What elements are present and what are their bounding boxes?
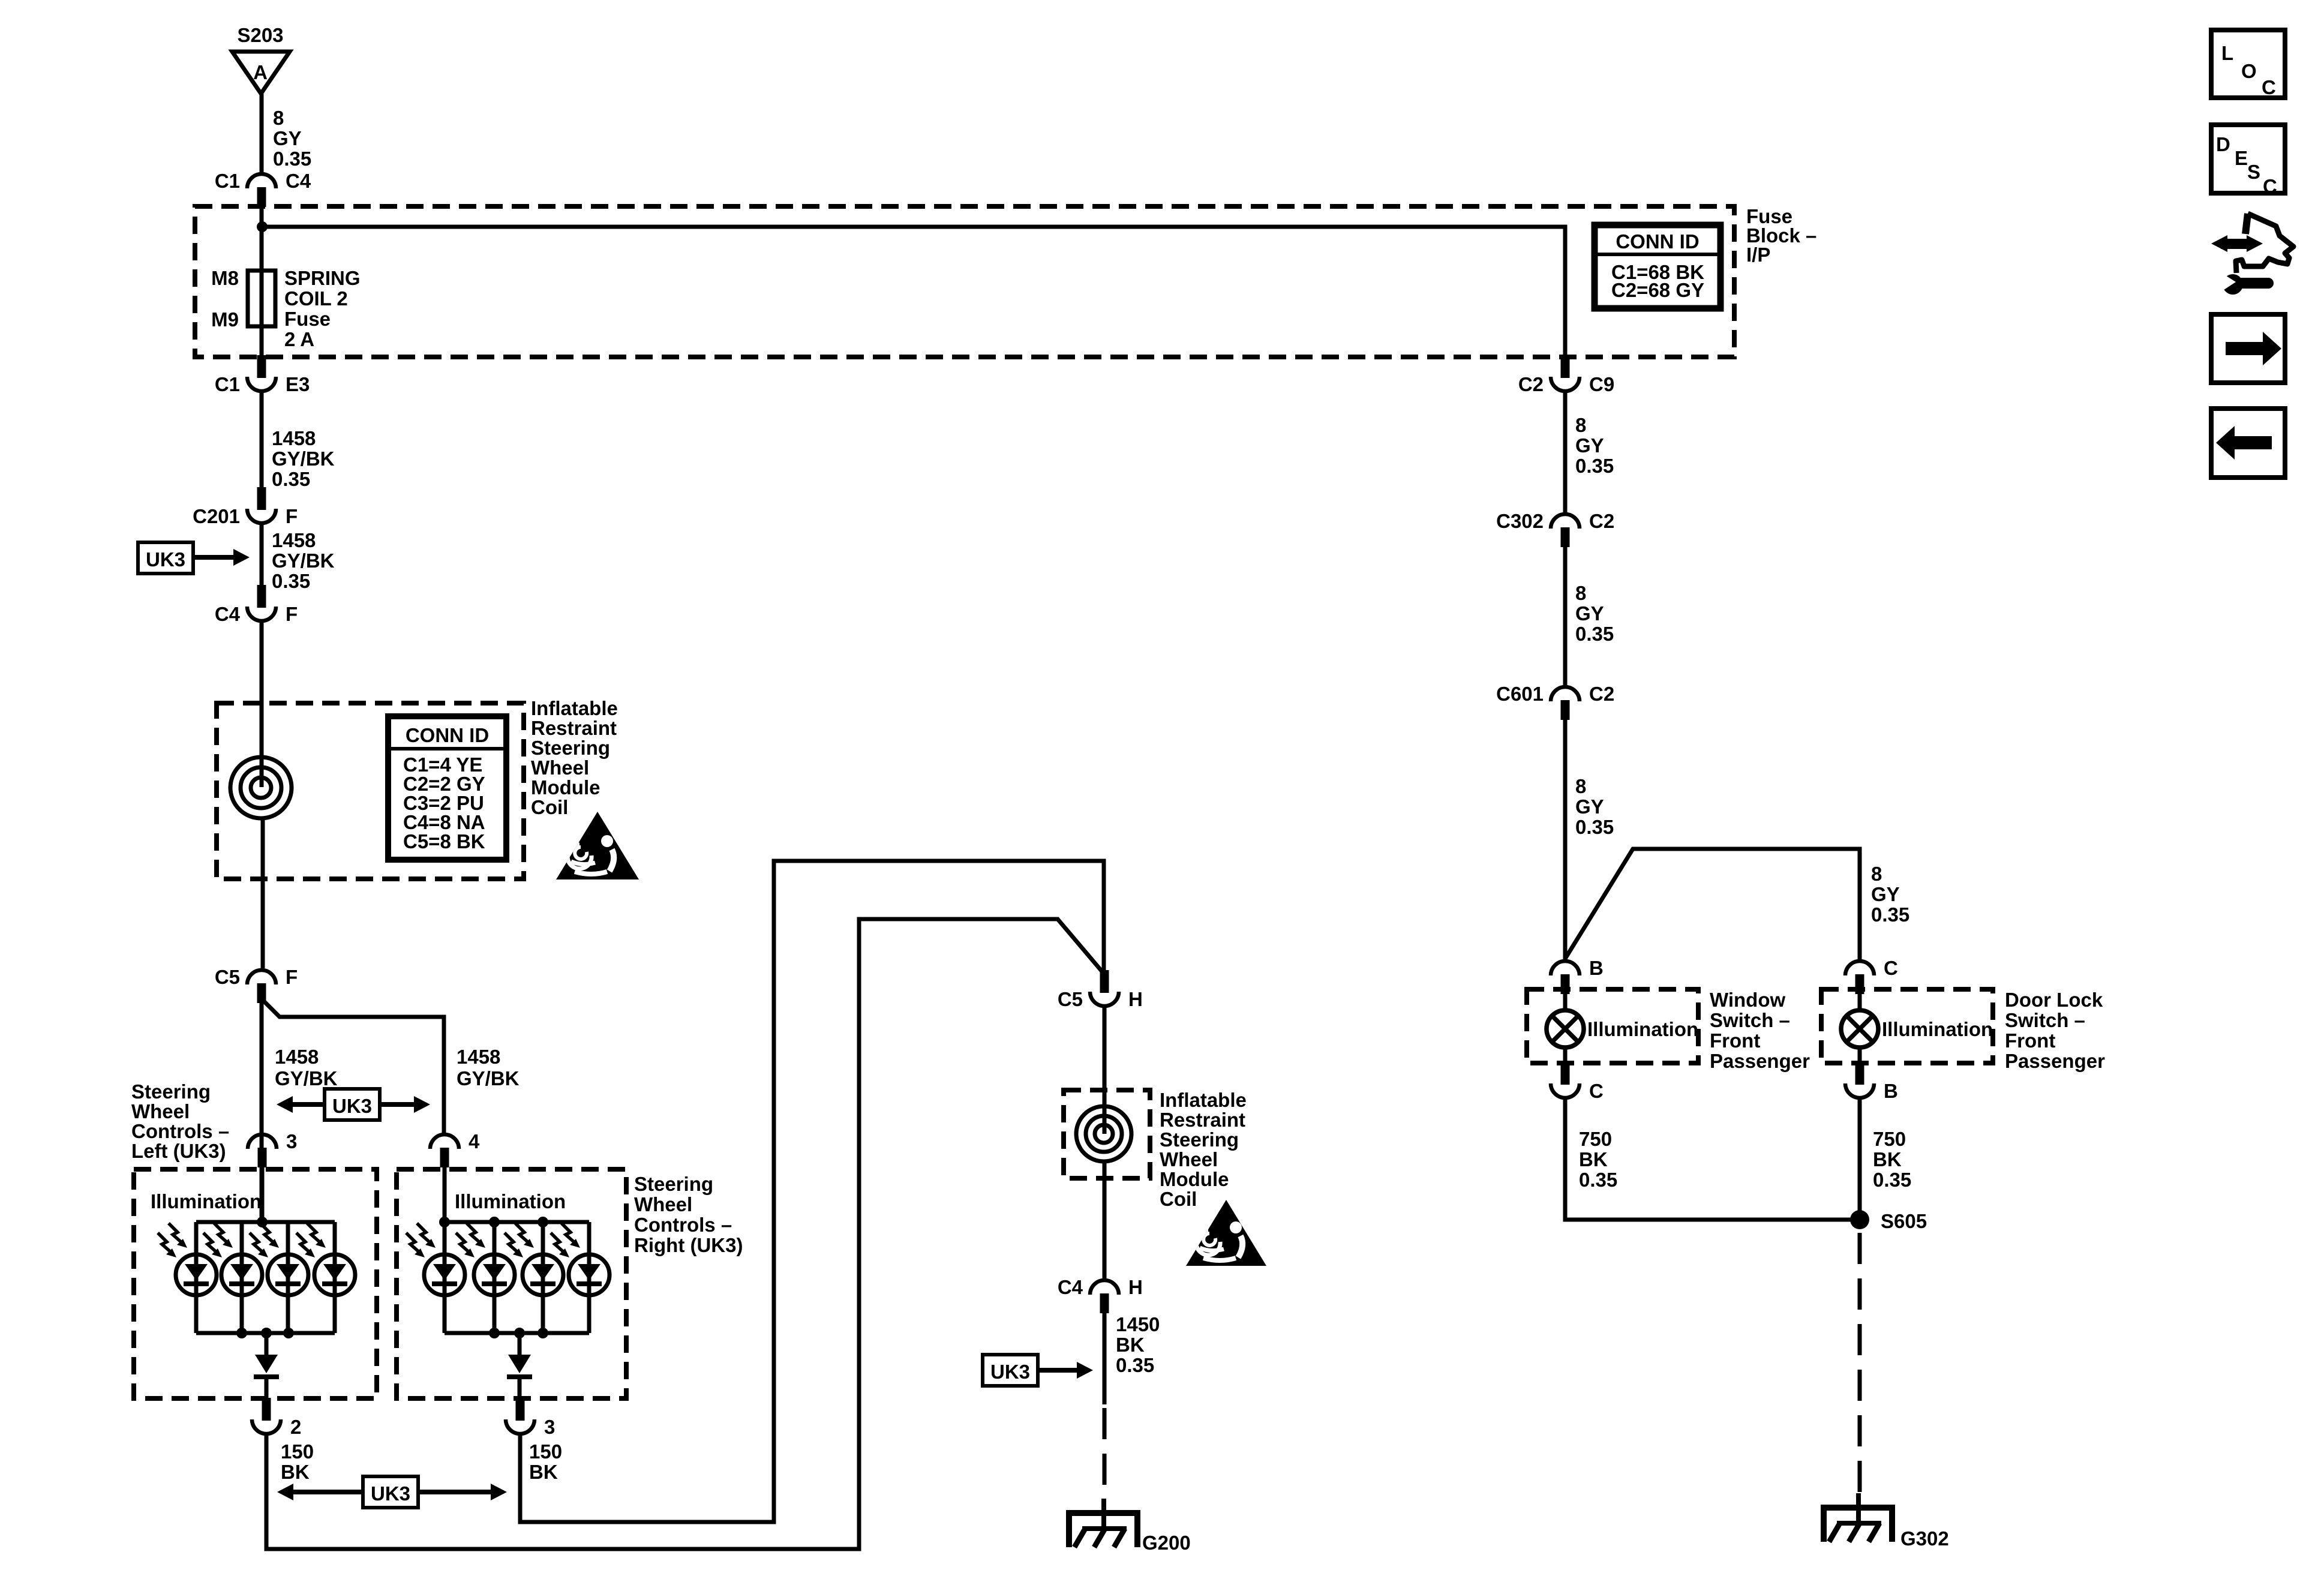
fuse block I/P dashed outline (195, 206, 1734, 357)
svg-text:UK3: UK3 (990, 1361, 1030, 1383)
wire left bus to diode (265, 1333, 269, 1355)
wire C4/H to G200 (1103, 1313, 1107, 1404)
connector C (window switch bottom) (1551, 1062, 1604, 1102)
LED lamp 4 (SWC right) (569, 1254, 609, 1295)
right LED branch 3 (541, 1222, 545, 1333)
svg-text:M9: M9 (211, 308, 239, 331)
svg-text:BK: BK (1116, 1334, 1145, 1356)
svg-text:F: F (286, 505, 298, 527)
LED lamp 1 (SWC right) (424, 1254, 465, 1295)
svg-text:2 A: 2 A (284, 328, 314, 350)
wire label 1458 GY/BK (right) (457, 1046, 520, 1089)
svg-text:S203: S203 (237, 24, 283, 46)
svg-text:0.35: 0.35 (1579, 1169, 1617, 1191)
svg-text:4: 4 (469, 1130, 480, 1152)
svg-text:GY: GY (1871, 883, 1900, 905)
svg-text:C302: C302 (1496, 510, 1544, 532)
junction on left LED bus (257, 1217, 268, 1227)
svg-text:Fuse: Fuse (284, 308, 331, 330)
component label Window Switch - Front Passenger (1710, 989, 1810, 1072)
wire C5/H to coil (1103, 1008, 1107, 1134)
LED lamp 3 (SWC right) (523, 1254, 563, 1295)
svg-text:Wheel: Wheel (634, 1193, 692, 1215)
junction right bottom bus A (489, 1328, 500, 1338)
wire window switch C to S605 (1565, 1100, 1860, 1220)
svg-text:GY/BK: GY/BK (272, 448, 335, 470)
wire diode to pin 2 (265, 1378, 269, 1398)
wire label 8 GY 0.35 (circuit 8) (273, 107, 311, 170)
fuse value label SPRING COIL 2 Fuse 2 A (284, 267, 361, 350)
steering wheel controls right dashed outline (397, 1169, 626, 1398)
right LED bottom bus (445, 1331, 589, 1335)
svg-text:Passenger: Passenger (2005, 1050, 2105, 1072)
svg-text:C201: C201 (193, 505, 240, 527)
SIR warning triangle (left) (556, 812, 639, 879)
svg-text:Switch –: Switch – (1710, 1009, 1790, 1031)
svg-text:UK3: UK3 (371, 1482, 410, 1505)
svg-text:C2: C2 (1589, 510, 1614, 532)
wire label 3 150 BK (right) (529, 1440, 562, 1483)
sidebar LOC box (2211, 30, 2285, 98)
LED emission arrows 4 (left) (296, 1223, 326, 1257)
LED emission arrows 1 (left) (158, 1223, 187, 1257)
door lock switch illumination dashed outline (1821, 989, 1993, 1063)
branch wire to door lock switch C (1565, 849, 1860, 959)
svg-text:H: H (1128, 988, 1143, 1010)
svg-text:C1: C1 (215, 373, 240, 395)
svg-text:C4: C4 (286, 170, 311, 192)
svg-text:0.35: 0.35 (272, 468, 310, 490)
svg-text:GY/BK: GY/BK (457, 1067, 520, 1089)
wire label 8 GY 0.35 (door lock feed) (1871, 863, 1909, 926)
LED emission arrows 2 (right) (456, 1223, 485, 1257)
wire C4/F into coil module (260, 623, 264, 787)
inflatable restraint SWM coil dashed outline (right) (1064, 1090, 1150, 1178)
svg-text:C5: C5 (1058, 988, 1083, 1010)
svg-text:0.35: 0.35 (1871, 903, 1909, 926)
svg-text:8: 8 (1575, 775, 1586, 797)
wire label 8 GY 0.35 (below C601) (1575, 775, 1614, 838)
junction left bus A (236, 1328, 247, 1338)
LED lamp 4 (SWC left) (314, 1254, 355, 1295)
wire diode to pin 3 (518, 1378, 522, 1398)
svg-text:Illumination: Illumination (1882, 1018, 1993, 1040)
svg-text:BK: BK (529, 1461, 558, 1483)
svg-text:0.35: 0.35 (1116, 1354, 1154, 1376)
wire door lock B to S605 (1858, 1100, 1862, 1220)
svg-text:8: 8 (1575, 414, 1586, 436)
label Illumination (window switch) (1587, 1018, 1698, 1040)
sidebar prev-page arrow box (2211, 409, 2285, 478)
svg-text:C: C (2262, 76, 2276, 98)
svg-text:1450: 1450 (1116, 1313, 1160, 1335)
svg-text:Restraint: Restraint (531, 717, 617, 739)
LED emission arrows 3 (right) (505, 1223, 534, 1257)
svg-text:F: F (286, 603, 298, 625)
svg-text:1458: 1458 (272, 427, 316, 449)
splice S605 (1850, 1210, 1869, 1229)
svg-text:C: C (2263, 175, 2277, 197)
svg-text:Steering: Steering (131, 1080, 211, 1103)
svg-text:E3: E3 (286, 373, 310, 395)
svg-text:1458: 1458 (275, 1046, 319, 1068)
wire pin3 to LED bus (260, 1167, 265, 1222)
svg-text:UK3: UK3 (146, 548, 185, 571)
junction left bus C (283, 1328, 294, 1338)
svg-text:Passenger: Passenger (1710, 1050, 1810, 1072)
right LED branch 4 (587, 1222, 591, 1333)
left LED branch 4 (333, 1222, 337, 1333)
dashed wire to G200 (1103, 1408, 1107, 1498)
svg-text:Front: Front (1710, 1029, 1760, 1052)
wire C1/C4 through fuse block to C1/E3 (260, 207, 264, 355)
svg-text:2: 2 (290, 1416, 301, 1438)
svg-text:H: H (1128, 1276, 1143, 1298)
connector C (door lock switch) (1845, 957, 1898, 994)
svg-text:I/P: I/P (1746, 244, 1770, 266)
svg-text:0.35: 0.35 (1575, 816, 1614, 838)
svg-text:L: L (2221, 42, 2233, 64)
svg-text:Wheel: Wheel (131, 1100, 190, 1122)
wire coil to C5/F (261, 818, 265, 968)
wire C302 to C601 (1563, 547, 1568, 685)
svg-text:Steering: Steering (1160, 1128, 1239, 1151)
svg-text:3: 3 (286, 1130, 297, 1152)
left LED bottom bus (196, 1331, 335, 1335)
junction left bus B (261, 1328, 272, 1338)
LED emission arrows 3 (left) (250, 1223, 279, 1257)
junction right top bus B (489, 1217, 500, 1227)
svg-text:Right (UK3): Right (UK3) (634, 1234, 743, 1256)
svg-text:Coil: Coil (1160, 1188, 1197, 1210)
LED lamp 1 (SWC left) (176, 1254, 217, 1295)
svg-text:C5=8 BK: C5=8 BK (403, 830, 485, 852)
svg-text:Steering: Steering (634, 1173, 713, 1195)
svg-text:Module: Module (1160, 1168, 1229, 1190)
diode (SWC left) (254, 1355, 279, 1379)
component label Steering Wheel Controls - Right (UK3) (634, 1173, 743, 1256)
connector C302 / C2 (1496, 510, 1614, 547)
svg-text:0.35: 0.35 (1575, 623, 1614, 645)
left LED branch 1 (194, 1222, 199, 1333)
svg-text:E: E (2235, 147, 2248, 169)
svg-text:A: A (253, 61, 268, 83)
svg-text:F: F (286, 966, 298, 988)
svg-text:150: 150 (281, 1440, 314, 1463)
left LED branch 3 (286, 1222, 290, 1333)
fuse terminal label M9 (211, 308, 239, 331)
left LED top bus (196, 1220, 335, 1224)
ground G200 (1069, 1499, 1191, 1554)
label Illumination (door lock) (1882, 1018, 1993, 1040)
svg-text:Switch –: Switch – (2005, 1009, 2085, 1031)
LED lamp 2 (SWC right) (474, 1254, 515, 1295)
svg-text:GY: GY (1575, 795, 1604, 818)
right LED branch 1 (443, 1222, 447, 1333)
svg-text:C601: C601 (1496, 683, 1544, 705)
svg-text:0.35: 0.35 (273, 148, 311, 170)
junction right top bus A (439, 1217, 450, 1227)
svg-text:COIL 2: COIL 2 (284, 287, 348, 310)
CONN ID table (SWM coil) (388, 716, 506, 860)
svg-text:UK3: UK3 (332, 1095, 372, 1117)
svg-text:C9: C9 (1589, 373, 1614, 395)
svg-text:GY: GY (273, 127, 302, 149)
clockspring coil symbol (right) (1076, 1106, 1131, 1161)
svg-text:GY: GY (1575, 434, 1604, 457)
wire coil to C4/H (1103, 1161, 1107, 1278)
svg-text:C2: C2 (1518, 373, 1544, 395)
svg-text:750: 750 (1873, 1128, 1906, 1150)
wire label 8 GY 0.35 (below C9) (1575, 414, 1614, 477)
connector pin 3 (SWC left) (248, 1130, 297, 1167)
sidebar harness routing icon (2211, 214, 2293, 295)
splice S203 triangle (232, 52, 290, 94)
connector C4 / F (215, 585, 298, 625)
junction node in fuse block (257, 221, 268, 232)
svg-text:C4: C4 (215, 603, 241, 625)
svg-text:CONN ID: CONN ID (1616, 230, 1699, 253)
svg-text:150: 150 (529, 1440, 562, 1463)
wire B to lamp (1563, 993, 1568, 1010)
svg-text:SPRING: SPRING (284, 267, 361, 289)
UK3 option double arrow (bottom) (277, 1476, 507, 1508)
illumination lamp (window switch) (1547, 1010, 1584, 1047)
connector C601 / C2 (1496, 683, 1614, 720)
UK3 option arrow box (left upper) (138, 542, 250, 574)
wire C2/C9 to C302 (1563, 393, 1568, 512)
left LED branch 2 (240, 1222, 244, 1333)
connector B (door lock switch bottom) (1845, 1062, 1898, 1102)
component label Door Lock Switch - Front Passenger (2005, 989, 2105, 1072)
wire label 750 BK 0.35 (right) (1873, 1128, 1911, 1191)
wire label 8 GY 0.35 (below C302) (1575, 582, 1614, 645)
svg-text:8: 8 (273, 107, 284, 129)
wire label 1450 BK 0.35 (1116, 1313, 1160, 1376)
svg-text:3: 3 (544, 1416, 555, 1438)
wire label 1458 GY/BK 0.35 (below C201) (272, 529, 335, 592)
junction right bottom bus B (514, 1328, 525, 1338)
svg-text:BK: BK (281, 1461, 310, 1483)
LED lamp 3 (SWC left) (268, 1254, 308, 1295)
connector C5 / F (215, 966, 298, 1003)
svg-text:C1: C1 (215, 170, 240, 192)
connector pin 3 (SWC right bottom) (506, 1398, 555, 1438)
inflatable restraint steering wheel module coil dashed outline (217, 703, 524, 879)
wire label 2 150 BK (left) (281, 1440, 314, 1483)
svg-text:Coil: Coil (531, 796, 568, 818)
wire from S203 to C1/C4 (260, 94, 264, 172)
wire pin4 to LED bus (443, 1167, 447, 1222)
svg-text:Illumination: Illumination (455, 1190, 566, 1212)
LED emission arrows 1 (right) (406, 1223, 436, 1257)
svg-text:1458: 1458 (272, 529, 316, 551)
connector C2 / C9 (1518, 355, 1614, 395)
svg-text:Left (UK3): Left (UK3) (131, 1140, 226, 1162)
module label Inflatable Restraint Steering Wheel Module Coil (531, 697, 618, 818)
svg-text:BK: BK (1873, 1148, 1902, 1170)
svg-text:GY/BK: GY/BK (275, 1067, 338, 1089)
svg-text:C4: C4 (1058, 1276, 1083, 1298)
label Illumination (SWC left) (151, 1190, 262, 1212)
svg-text:C: C (1884, 957, 1898, 979)
svg-text:D: D (2216, 133, 2230, 155)
connector C4 / H (1058, 1276, 1143, 1313)
dashed wire S605 to G302 (1858, 1233, 1862, 1493)
wire branch to right illumination bank (265, 1002, 444, 1133)
svg-text:C2=68 GY: C2=68 GY (1611, 279, 1704, 301)
return wire left controls to C5/H (266, 919, 1104, 1549)
svg-text:0.35: 0.35 (1873, 1169, 1911, 1191)
svg-text:B: B (1884, 1080, 1898, 1102)
svg-text:0.35: 0.35 (272, 570, 310, 592)
svg-text:Module: Module (531, 776, 600, 798)
wire C5/F to left illumination bank (260, 1002, 264, 1222)
illumination lamp (door lock switch) (1841, 1010, 1878, 1047)
wire lamp to C (1563, 1047, 1568, 1063)
LED emission arrows 4 (right) (551, 1223, 580, 1257)
wire lamp to B (door lock) (1858, 1047, 1862, 1063)
splice label S605 (1881, 1210, 1927, 1232)
SIR warning triangle (right) (1186, 1200, 1266, 1266)
svg-text:Door Lock: Door Lock (2005, 989, 2103, 1011)
svg-text:GY: GY (1575, 602, 1604, 625)
fuse block label Fuse Block - I/P (1746, 205, 1816, 266)
svg-text:G302: G302 (1900, 1527, 1949, 1550)
UK3 option double arrow (branch) (277, 1089, 430, 1120)
junction right bottom bus C (538, 1328, 548, 1338)
svg-text:GY/BK: GY/BK (272, 550, 335, 572)
svg-text:BK: BK (1579, 1148, 1608, 1170)
junction right top bus C (538, 1217, 548, 1227)
connector pin 2 (SWC left) (252, 1398, 301, 1438)
svg-text:Inflatable: Inflatable (531, 697, 618, 719)
wire junction to right branch (top feed) (262, 227, 1565, 355)
svg-text:Wheel: Wheel (531, 757, 589, 779)
svg-text:Controls –: Controls – (131, 1120, 229, 1142)
CONN ID table (fuse block) (1595, 225, 1721, 308)
LED emission arrows 2 (left) (203, 1223, 233, 1257)
svg-text:S: S (2247, 161, 2260, 183)
svg-text:C2: C2 (1589, 683, 1614, 705)
wire label 1458 GY/BK (left) (275, 1046, 338, 1089)
svg-text:Steering: Steering (531, 737, 610, 759)
svg-text:1458: 1458 (457, 1046, 500, 1068)
wire label 750 BK 0.35 (left) (1579, 1128, 1617, 1191)
svg-text:8: 8 (1575, 582, 1586, 604)
window switch illumination dashed outline (1527, 989, 1698, 1063)
svg-text:Illumination: Illumination (1587, 1018, 1698, 1040)
label Illumination (SWC right) (455, 1190, 566, 1212)
right LED top bus (445, 1220, 589, 1224)
UK3 option arrow box (middle) (983, 1355, 1093, 1386)
svg-text:CONN ID: CONN ID (406, 724, 489, 746)
fuse SPRING COIL 2 Fuse 2A (248, 271, 275, 326)
svg-text:Controls –: Controls – (634, 1214, 732, 1236)
sidebar DESC box (2211, 125, 2285, 197)
wire right bus to diode (518, 1333, 522, 1355)
steering wheel controls left dashed outline (134, 1169, 377, 1398)
svg-text:M8: M8 (211, 267, 239, 289)
fuse terminal label M8 (211, 267, 239, 289)
wire label 1458 GY/BK 0.35 (272, 427, 335, 490)
svg-text:Front: Front (2005, 1029, 2055, 1052)
svg-text:S605: S605 (1881, 1210, 1927, 1232)
svg-text:G200: G200 (1142, 1532, 1191, 1554)
module label Inflatable Restraint Steering Wheel Module Coil (right) (1160, 1089, 1247, 1210)
sidebar next-page arrow box (2211, 314, 2285, 383)
svg-text:B: B (1589, 957, 1604, 979)
wire C601 to window switch B (1563, 719, 1568, 959)
connector B (window switch) (1551, 957, 1604, 994)
svg-text:0.35: 0.35 (1575, 455, 1614, 477)
svg-text:Restraint: Restraint (1160, 1109, 1245, 1131)
wire C201 to C4 (260, 525, 264, 589)
svg-text:750: 750 (1579, 1128, 1612, 1150)
svg-text:Inflatable: Inflatable (1160, 1089, 1247, 1111)
diode (SWC right) (507, 1355, 532, 1379)
wire C to lamp (door lock) (1858, 993, 1862, 1010)
return wire right controls to C5/H (520, 861, 1104, 1522)
svg-text:C: C (1589, 1080, 1604, 1102)
svg-text:Illumination: Illumination (151, 1190, 262, 1212)
svg-text:C5: C5 (215, 966, 240, 988)
connector pin 4 (SWC right) (430, 1130, 480, 1167)
connector C201 / F (193, 487, 298, 527)
svg-text:Window: Window (1710, 989, 1785, 1011)
wire C1/E3 to C201 (260, 393, 264, 491)
svg-text:Wheel: Wheel (1160, 1148, 1218, 1170)
connector C1 / E3 (215, 355, 310, 395)
right LED branch 2 (493, 1222, 497, 1333)
ground G302 (1824, 1493, 1949, 1550)
svg-text:8: 8 (1871, 863, 1882, 885)
connector C5 / H (1058, 970, 1143, 1010)
component label Steering Wheel Controls - Left (UK3) (131, 1080, 229, 1162)
LED lamp 2 (SWC left) (221, 1254, 262, 1295)
svg-text:O: O (2241, 60, 2257, 82)
connector C1 / C4 (215, 170, 311, 207)
clockspring coil symbol (230, 757, 292, 818)
